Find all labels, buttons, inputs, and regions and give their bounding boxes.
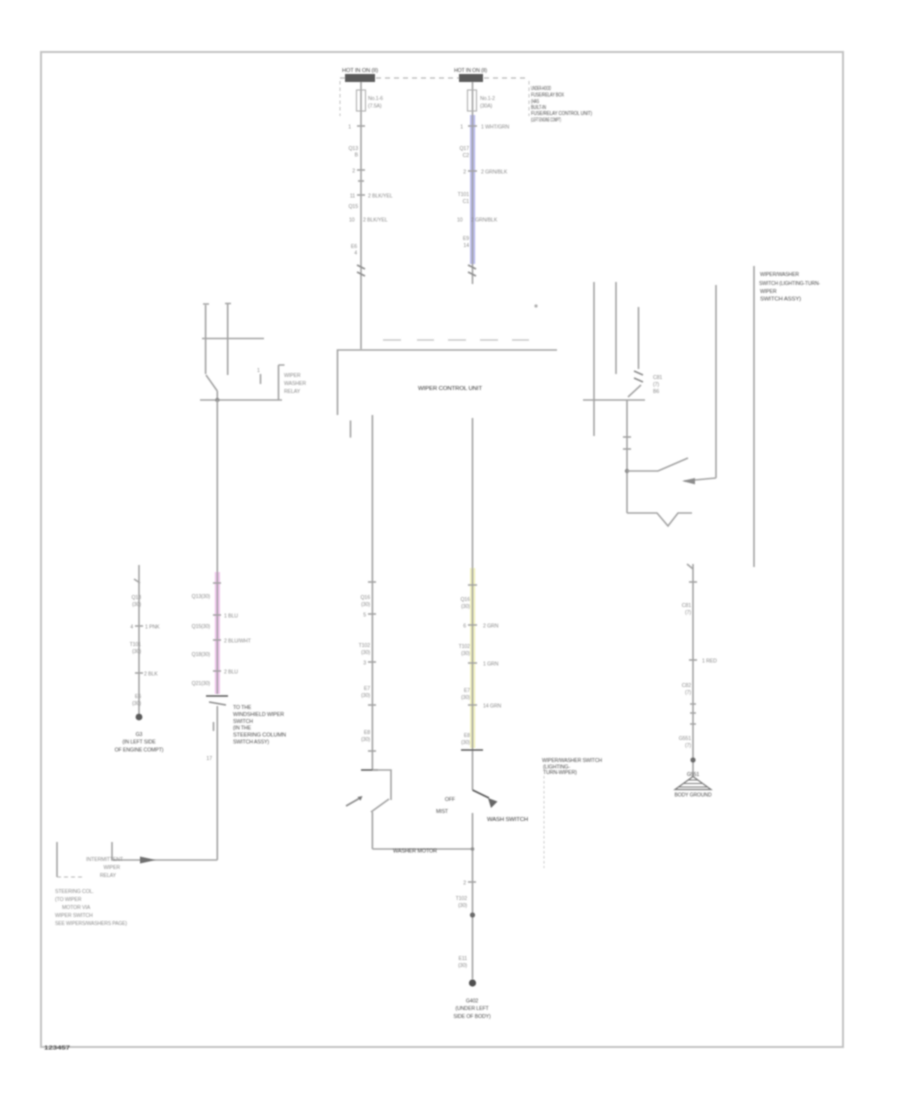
destination text chain E xyxy=(233,705,286,746)
wire horizontal to wiper relay xyxy=(112,859,217,861)
svg-text:E8: E8 xyxy=(464,733,470,739)
splice dot chain G xyxy=(690,757,695,762)
tick label chain F y673 xyxy=(135,672,143,674)
inline connector s3 xyxy=(634,371,643,382)
washer switch blade xyxy=(473,790,490,798)
svg-text:1: 1 xyxy=(348,125,351,131)
svg-text:1: 1 xyxy=(257,368,260,374)
wiper switch wire s1 xyxy=(593,282,595,436)
svg-text:T102: T102 xyxy=(456,896,468,902)
inline connector dark chain E xyxy=(206,695,228,697)
svg-text:T102: T102 xyxy=(359,643,371,649)
svg-text:(30): (30) xyxy=(361,650,370,656)
svg-text:BODY GROUND: BODY GROUND xyxy=(675,793,712,799)
tick chain E y583 xyxy=(213,582,221,584)
svg-text:(UNDER LEFT: (UNDER LEFT xyxy=(455,1006,489,1012)
tick label chain G y660 xyxy=(689,659,697,661)
svg-text:RELAY: RELAY xyxy=(100,873,117,879)
svg-text:(30): (30) xyxy=(361,602,370,608)
svg-text:2 BLU/WHT: 2 BLU/WHT xyxy=(224,639,252,645)
svg-text:(30): (30) xyxy=(461,695,470,701)
svg-text:(30): (30) xyxy=(132,602,141,608)
svg-text:Q15(30): Q15(30) xyxy=(192,624,211,630)
relay subcircuit left: coil pin 1 xyxy=(203,304,209,374)
junction dot switch xyxy=(625,469,629,473)
svg-text:G3: G3 xyxy=(136,732,143,738)
svg-text:1 GRN: 1 GRN xyxy=(483,662,499,668)
svg-text:1 PNK: 1 PNK xyxy=(145,625,160,631)
wiper switch wire s3 xyxy=(638,307,640,369)
svg-text:E11: E11 xyxy=(458,956,467,962)
svg-text:WIPER: WIPER xyxy=(760,289,777,295)
tick s y449 xyxy=(623,448,631,450)
svg-text:C2: C2 xyxy=(463,153,470,159)
pin 1 tick chain A xyxy=(357,125,365,127)
svg-text:2: 2 xyxy=(352,169,355,175)
svg-text:10: 10 xyxy=(349,218,355,224)
wire color highlight pink xyxy=(215,572,220,694)
park switch blade xyxy=(371,799,389,812)
tick label chain E y615 xyxy=(213,614,221,616)
svg-text:WASHER MOTOR: WASHER MOTOR xyxy=(393,849,437,855)
svg-text:Q16: Q16 xyxy=(460,597,470,603)
svg-text:(7): (7) xyxy=(685,610,691,616)
svg-text:WIPER/WASHER SWITCH: WIPER/WASHER SWITCH xyxy=(542,758,602,764)
tick chain D y585 xyxy=(468,584,477,586)
svg-text:(30): (30) xyxy=(461,604,470,610)
junction dot xyxy=(215,398,219,402)
relay coil pin 2 xyxy=(225,304,231,376)
horizontal wire y400 xyxy=(200,399,282,401)
splice mark chain A xyxy=(358,180,364,182)
svg-text:SWITCH: SWITCH xyxy=(233,719,253,725)
connector diagonal to bus xyxy=(628,385,641,397)
connector bracket xyxy=(279,365,285,400)
svg-text:5: 5 xyxy=(363,613,366,619)
svg-text:(7.5A): (7.5A) xyxy=(368,104,382,110)
fuse box connector A1 xyxy=(345,74,375,82)
svg-text:SEE WIPERS/WASHERS PAGE): SEE WIPERS/WASHERS PAGE) xyxy=(55,921,127,927)
svg-text:G402: G402 xyxy=(466,999,479,1005)
relay bar xyxy=(202,338,264,340)
svg-text:T101: T101 xyxy=(458,192,470,198)
splice dot chain D xyxy=(470,912,475,917)
wire horizontal to washer motor xyxy=(372,848,472,850)
component bracket line right xyxy=(753,266,755,567)
svg-text:E7: E7 xyxy=(364,686,370,692)
svg-text:(7): (7) xyxy=(653,382,659,388)
svg-text:SWITCH ASSY): SWITCH ASSY) xyxy=(233,740,269,746)
wiper washer switch label xyxy=(759,272,820,303)
wiper switch wire s2 xyxy=(615,282,617,374)
svg-text:UNDER-HOOD: UNDER-HOOD xyxy=(531,86,551,92)
svg-text:2 BLK: 2 BLK xyxy=(144,672,158,678)
svg-text:No.1-2: No.1-2 xyxy=(480,96,495,102)
fuse box connector B1 xyxy=(459,74,483,82)
svg-text:(30): (30) xyxy=(461,740,470,746)
svg-text:SIDE OF BODY): SIDE OF BODY) xyxy=(453,1014,491,1020)
svg-text:(30): (30) xyxy=(132,701,141,707)
svg-text:2 GRN/BLK: 2 GRN/BLK xyxy=(481,170,508,176)
svg-text:MIST: MIST xyxy=(436,809,449,815)
svg-text:Q13: Q13 xyxy=(348,146,358,152)
svg-text:C81: C81 xyxy=(653,375,662,381)
svg-text:123457: 123457 xyxy=(44,1046,70,1052)
svg-text:3: 3 xyxy=(363,661,366,667)
tick label chain D y663 xyxy=(468,662,477,664)
pin tick with label chain B y126 xyxy=(468,125,477,127)
park switch wiring xyxy=(372,770,391,800)
wire chain B vertical xyxy=(472,82,474,284)
switch feed vertical xyxy=(626,400,628,513)
svg-text:(30): (30) xyxy=(361,737,370,743)
switch contact from right xyxy=(684,478,716,481)
node dot stray xyxy=(534,304,537,307)
dark contact tick chain C xyxy=(361,769,378,771)
svg-text:14 GRN: 14 GRN xyxy=(483,704,501,710)
svg-text:2 GRN: 2 GRN xyxy=(483,624,499,630)
svg-text:17: 17 xyxy=(206,756,212,762)
svg-text:1: 1 xyxy=(460,125,463,131)
svg-text:1 WHT/GRN: 1 WHT/GRN xyxy=(481,125,510,131)
pin tick with label chain B y171 xyxy=(468,170,477,172)
chevron top chain G xyxy=(687,564,693,569)
arrow on wire xyxy=(140,857,156,864)
svg-text:HOT IN ON (II): HOT IN ON (II) xyxy=(454,68,487,74)
switch arm INT xyxy=(627,458,688,471)
wire chain F vertical xyxy=(138,565,140,717)
tick label chain D y625 xyxy=(468,624,477,626)
tick chain D y882 xyxy=(468,881,476,883)
svg-text:WIPER/WASHER: WIPER/WASHER xyxy=(760,272,799,278)
svg-text:(7): (7) xyxy=(685,743,691,749)
horizontal bus y400 xyxy=(583,399,645,401)
inline connector chain B xyxy=(468,265,476,276)
svg-text:Q15: Q15 xyxy=(348,204,358,210)
svg-text:WIPER CONTROL UNIT: WIPER CONTROL UNIT xyxy=(418,386,483,392)
tick s y437 xyxy=(623,436,631,438)
steering column note text xyxy=(55,889,127,927)
tick label chain E y671 xyxy=(213,670,221,672)
svg-text:Q13(30): Q13(30) xyxy=(192,594,211,600)
leader line lower label xyxy=(543,776,545,868)
wiper washer switch lower label xyxy=(542,758,602,776)
inline connector chain A xyxy=(357,265,365,276)
svg-text:2: 2 xyxy=(463,881,466,887)
wire chain A vertical xyxy=(360,82,362,349)
svg-text:TURN-WIPER): TURN-WIPER) xyxy=(543,770,577,776)
svg-text:Q17: Q17 xyxy=(459,146,469,152)
svg-text:E6: E6 xyxy=(135,694,141,700)
tick label chain D y705 xyxy=(468,704,477,706)
svg-text:Q18(30): Q18(30) xyxy=(192,652,211,658)
svg-text:WASHER: WASHER xyxy=(284,381,306,387)
tick chain C y582 xyxy=(368,581,376,583)
switch contact V low xyxy=(627,513,692,526)
pin tick chain A y170 xyxy=(357,169,365,171)
wire color highlight yellow xyxy=(470,568,475,748)
svg-text:WIPER: WIPER xyxy=(103,865,120,871)
svg-text:MOTOR VIA: MOTOR VIA xyxy=(62,905,91,911)
wire chain E lower xyxy=(216,706,218,860)
wire chain C vertical xyxy=(371,415,373,770)
ground dot chain F xyxy=(136,714,143,721)
svg-text:STEERING COLUMN: STEERING COLUMN xyxy=(233,733,286,739)
svg-text:10: 10 xyxy=(457,218,463,224)
svg-text:WINDSHIELD WIPER: WINDSHIELD WIPER xyxy=(233,712,284,718)
svg-text:1 BLU: 1 BLU xyxy=(224,614,238,620)
wire chain D lower xyxy=(472,813,474,979)
tick chain C y751 xyxy=(368,750,376,752)
wire chain E vertical upper xyxy=(216,400,218,694)
svg-text:(TO WIPER: (TO WIPER xyxy=(55,897,82,903)
svg-text:Q21(30): Q21(30) xyxy=(192,681,211,687)
svg-text:Q13: Q13 xyxy=(131,595,141,601)
tick label chain E y640 xyxy=(213,639,221,641)
svg-text:(7): (7) xyxy=(685,690,691,696)
ground dot chain D xyxy=(469,979,476,986)
svg-text:2 BLK/YEL: 2 BLK/YEL xyxy=(368,194,393,200)
svg-text:SWITCH ASSY): SWITCH ASSY) xyxy=(760,297,801,303)
svg-text:B6: B6 xyxy=(653,389,659,395)
svg-text:SWITCH (LIGHTING-TURN-: SWITCH (LIGHTING-TURN- xyxy=(759,281,820,287)
svg-text:Q16: Q16 xyxy=(360,595,370,601)
chevron top chain F xyxy=(134,579,140,583)
svg-text:C82: C82 xyxy=(682,683,691,689)
svg-text:INTERMITTENT: INTERMITTENT xyxy=(86,857,124,863)
svg-text:4: 4 xyxy=(130,625,133,631)
svg-text:(30): (30) xyxy=(132,649,141,655)
svg-text:OF ENGINE COMPT): OF ENGINE COMPT) xyxy=(115,748,164,754)
svg-text:E8: E8 xyxy=(364,730,370,736)
svg-text:TO THE: TO THE xyxy=(233,705,252,711)
svg-text:14: 14 xyxy=(463,243,469,249)
under-hood fuse relay box label xyxy=(531,86,592,124)
svg-text:11: 11 xyxy=(350,194,355,200)
splice marks chain G xyxy=(690,704,696,724)
svg-text:2: 2 xyxy=(463,170,466,176)
wire chain G vertical xyxy=(692,564,694,776)
svg-text:6: 6 xyxy=(463,624,466,630)
svg-text:STEERING COL.: STEERING COL. xyxy=(55,889,94,895)
pin stub P2 xyxy=(350,421,352,437)
wire color highlight blue xyxy=(470,115,475,264)
svg-text:(IN THE: (IN THE xyxy=(233,726,252,732)
pin tick with wire label chain A xyxy=(357,194,365,196)
svg-text:4: 4 xyxy=(354,251,357,257)
ground symbol chain G xyxy=(675,772,712,799)
svg-text:1 RED: 1 RED xyxy=(702,659,717,665)
svg-text:(30A): (30A) xyxy=(480,104,493,110)
control unit box xyxy=(338,340,558,415)
junction washer motor xyxy=(471,847,475,851)
tick chain C y705 xyxy=(368,704,376,706)
svg-text:(LEFT ENGINE COMPT): (LEFT ENGINE COMPT) xyxy=(531,118,561,124)
wire below park switch xyxy=(371,812,373,849)
svg-text:2 BLU: 2 BLU xyxy=(224,670,238,676)
svg-text:(30): (30) xyxy=(461,651,470,657)
svg-text:C1: C1 xyxy=(463,199,470,205)
pin 1 tick xyxy=(260,374,262,384)
svg-text:OFF: OFF xyxy=(445,797,455,803)
park switch arrow xyxy=(346,798,360,806)
svg-text:(30): (30) xyxy=(458,963,467,969)
svg-text:No.1-6: No.1-6 xyxy=(368,96,383,102)
intermittent wiper relay bracket xyxy=(56,842,58,877)
svg-text:(30): (30) xyxy=(361,693,370,699)
svg-text:E6: E6 xyxy=(351,244,357,250)
svg-text:E7: E7 xyxy=(464,688,470,694)
svg-text:T102: T102 xyxy=(459,644,471,650)
svg-text:(30): (30) xyxy=(458,903,467,909)
svg-text:2 GRN/BLK: 2 GRN/BLK xyxy=(471,218,498,224)
svg-text:(IN LEFT SIDE: (IN LEFT SIDE xyxy=(122,740,156,746)
svg-text:FUSE/RELAY CONTROL UNIT): FUSE/RELAY CONTROL UNIT) xyxy=(531,111,592,117)
tick chain C y614 xyxy=(368,613,376,615)
svg-text:2 BLK/YEL: 2 BLK/YEL xyxy=(363,218,388,224)
tick chain C y662 xyxy=(368,661,376,663)
wire chain D vertical xyxy=(472,418,474,790)
svg-text:WIPER SWITCH: WIPER SWITCH xyxy=(55,913,93,919)
wire node vertical xyxy=(216,391,218,400)
svg-text:E9: E9 xyxy=(463,236,469,242)
fuse F2 xyxy=(468,90,496,111)
svg-text:RELAY: RELAY xyxy=(284,389,301,395)
tick chain G y582 xyxy=(689,581,697,583)
tick label chain F y626 xyxy=(135,625,143,627)
fuse F1 xyxy=(357,90,384,111)
wiper relay stub xyxy=(111,842,113,860)
inline connector dark chain D xyxy=(461,749,483,751)
svg-text:WIPER: WIPER xyxy=(284,373,301,379)
relay switch blade xyxy=(206,375,217,391)
svg-text:G551: G551 xyxy=(679,736,692,742)
svg-text:C81: C81 xyxy=(682,603,691,609)
tick chain E y726 xyxy=(213,722,215,731)
svg-text:FUSE/RELAY BOX: FUSE/RELAY BOX xyxy=(531,93,564,99)
fuse box dashed outline xyxy=(340,77,527,79)
svg-text:HOT IN ON (II): HOT IN ON (II) xyxy=(342,68,378,74)
svg-text:T101: T101 xyxy=(130,642,142,648)
wiper switch right wire xyxy=(715,285,717,478)
svg-text:WASH SWITCH: WASH SWITCH xyxy=(487,817,528,823)
